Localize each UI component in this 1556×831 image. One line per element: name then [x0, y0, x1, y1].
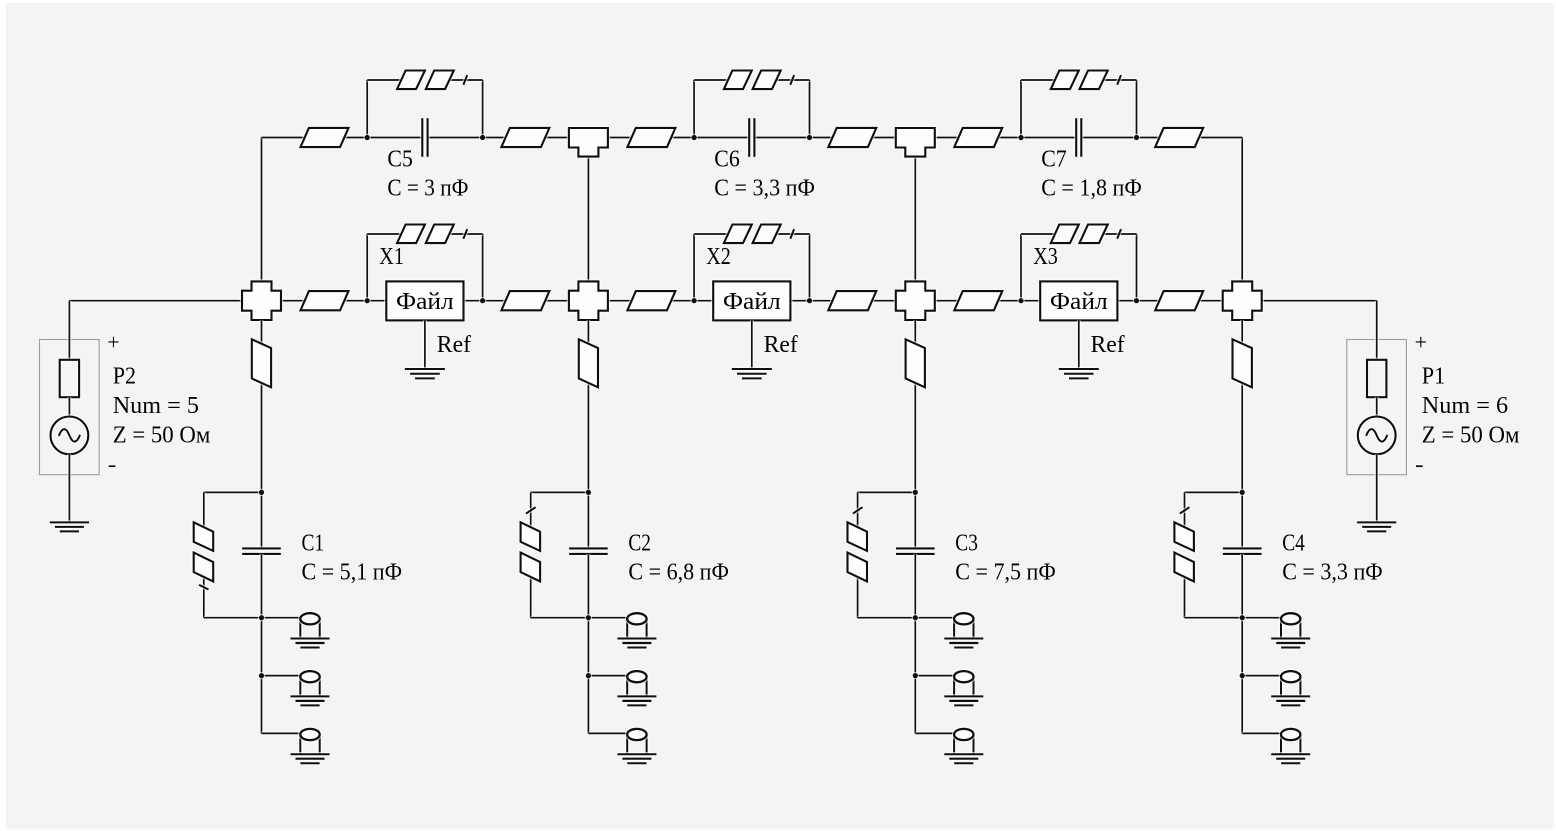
wire X3 to node n6	[1117, 299, 1136, 303]
svg-text:C3: C3	[955, 530, 978, 557]
svg-text:C = 3,3 пФ: C = 3,3 пФ	[714, 175, 815, 202]
coupled microstrip line bridge over X2	[724, 225, 794, 244]
junction node n4	[806, 297, 813, 304]
wire of stub 4 upper	[1240, 320, 1244, 492]
wire C5 to node t2	[428, 136, 483, 140]
microstrip line top row 6	[1155, 128, 1203, 147]
wire of stub 2 vertical 3	[586, 676, 590, 734]
wire node n6 to cross 4	[1137, 299, 1223, 303]
wire of stub 4 branch top	[1185, 490, 1243, 494]
junction of stub 1 top node	[258, 489, 265, 496]
microstrip line mid row 2	[501, 291, 549, 310]
microstrip line stub 3	[906, 339, 925, 387]
wire of coupled bridge X1 left top	[367, 232, 401, 236]
wire P2 top lead	[67, 301, 71, 360]
coupled microstrip line stub 2	[521, 507, 541, 581]
wire of coupled bridge 3 left top	[1021, 78, 1055, 82]
junction of stub 4 via node 1	[1239, 614, 1246, 621]
S-parameter file block X3	[1040, 281, 1117, 320]
capacitor C6	[749, 118, 754, 157]
wire of stub 1 branch lower lead	[202, 572, 206, 618]
minus terminal of P1	[1416, 464, 1423, 468]
svg-text:C5: C5	[387, 146, 413, 173]
svg-text:X1: X1	[379, 243, 404, 270]
wire of stub 2 via lead 1	[588, 616, 627, 620]
wire P2 middle lead	[67, 397, 71, 416]
wire of stub 2 branch bottom	[531, 616, 589, 620]
junction node n1	[364, 297, 371, 304]
microstrip cross junction 1	[242, 281, 281, 320]
wire node t3 to C6	[694, 136, 749, 140]
svg-text:Ref: Ref	[1091, 331, 1126, 358]
wire C6 to node t4	[754, 136, 809, 140]
resistor of port P1	[1367, 360, 1386, 397]
wire of coupled bridge 1 left top	[367, 78, 401, 82]
coupled microstrip line bridge 2	[724, 71, 794, 90]
junction node t3	[690, 134, 697, 141]
wire of coupled bridge X1 right top	[449, 232, 483, 236]
wire of stub 4 via lead 2	[1242, 674, 1281, 678]
svg-text:C2: C2	[628, 530, 651, 557]
svg-text:Z = 50 Ом: Z = 50 Ом	[113, 421, 211, 448]
wire of stub 1 vertical 2	[260, 618, 264, 676]
wire of stub 3 branch lower lead	[856, 572, 860, 618]
wire of stub 4 cap bottom lead	[1240, 554, 1244, 618]
ground ref ground of X3	[1059, 369, 1099, 378]
svg-text:C = 3,3 пФ: C = 3,3 пФ	[1282, 559, 1383, 586]
via hole 3 of stub 2	[617, 729, 656, 763]
microstrip line stub 4	[1233, 339, 1252, 387]
wire of stub 1 via lead 2	[262, 674, 301, 678]
junction of stub 4 top node	[1239, 489, 1246, 496]
wire tee 2 to node t5	[935, 136, 1021, 140]
wire of stub 1 branch bottom	[204, 616, 262, 620]
svg-text:Файл: Файл	[1050, 288, 1108, 315]
wire of stub 2 upper	[586, 320, 590, 492]
ac source of port P1	[1358, 417, 1396, 455]
wire of stub 1 upper	[260, 320, 264, 492]
svg-text:C1: C1	[302, 530, 325, 557]
wire of coupled bridge 3 right top	[1103, 78, 1137, 82]
wire of stub 2 branch upper lead	[529, 492, 533, 533]
wire node n3 to X2	[694, 299, 713, 303]
wire cross 1 up to top row	[260, 138, 264, 282]
svg-text:+: +	[1415, 330, 1427, 355]
wire of stub 2 branch lower lead	[529, 572, 533, 618]
wire of stub 4 branch bottom	[1185, 616, 1243, 620]
junction of stub 1 via node 1	[258, 614, 265, 621]
capacitor C5	[422, 118, 427, 157]
via hole 3 of stub 4	[1271, 729, 1310, 763]
wire of coupled bridge 1 right riser	[481, 80, 485, 138]
wire of coupled bridge 1 left riser	[365, 80, 369, 138]
junction of stub 2 top node	[585, 489, 592, 496]
junction of stub 3 top node	[912, 489, 919, 496]
wire of stub 1 branch top	[204, 490, 262, 494]
ground of port P2	[50, 522, 89, 531]
microstrip line top row 3	[627, 128, 675, 147]
junction node n5	[1017, 297, 1024, 304]
power port P1 outline box	[1347, 340, 1407, 475]
wire of stub 1 cap top lead	[260, 492, 264, 548]
capacitor C4	[1223, 548, 1262, 554]
svg-text:X3: X3	[1033, 243, 1058, 270]
coupled microstrip line stub 4	[1174, 507, 1194, 581]
resistor of port P2	[60, 360, 79, 397]
junction of stub 3 via node 2	[912, 672, 919, 679]
coupled microstrip line bridge over X3	[1051, 225, 1121, 244]
wire node n1 to X1	[367, 299, 386, 303]
junction of stub 2 via node 1	[585, 614, 592, 621]
microstrip line mid row 5	[954, 291, 1002, 310]
ground of port P1	[1357, 522, 1396, 531]
via hole 2 of stub 3	[944, 671, 983, 705]
wire of stub 4 vertical 2	[1240, 618, 1244, 676]
coupled microstrip line bridge 1	[397, 71, 467, 90]
svg-text:Файл: Файл	[723, 288, 781, 315]
microstrip line top row 2	[501, 128, 549, 147]
wire of stub 4 vertical 3	[1240, 676, 1244, 734]
microstrip line top row 5	[954, 128, 1002, 147]
wire of stub 2 vertical 2	[586, 618, 590, 676]
wire of stub 4 via lead 3	[1242, 731, 1281, 735]
wire of stub 3 via lead 2	[915, 674, 954, 678]
wire port P2 to cross 1	[69, 299, 242, 303]
wire of stub 4 via lead 1	[1242, 616, 1281, 620]
svg-text:Ref: Ref	[437, 331, 472, 358]
wire node t2 to tee 1	[483, 136, 569, 140]
wire cross 1 to node n1	[281, 299, 367, 303]
via hole 1 of stub 3	[944, 613, 983, 647]
ground ref ground of X2	[732, 369, 772, 378]
capacitor C2	[569, 548, 608, 554]
wire of coupled bridge X1 left riser	[365, 234, 369, 301]
minus terminal of P2	[109, 464, 116, 468]
wire node n5 to X3	[1021, 299, 1040, 303]
svg-text:P1: P1	[1422, 362, 1445, 389]
wire of stub 4 branch lower lead	[1183, 572, 1187, 618]
microstrip line mid row 1	[301, 291, 349, 310]
wire of coupled bridge X2 right top	[776, 232, 810, 236]
wire tee 1 down to cross 2	[586, 157, 590, 282]
svg-text:C4: C4	[1282, 530, 1305, 557]
wire of stub 1 vertical 3	[260, 676, 264, 734]
wire C7 to node t6	[1081, 136, 1136, 140]
microstrip line top row 4	[828, 128, 876, 147]
svg-text:Num = 5: Num = 5	[113, 392, 199, 419]
wire of coupled bridge 2 right top	[776, 78, 810, 82]
wire X3 ref pin	[1077, 320, 1081, 369]
wire of stub 3 branch top	[858, 490, 916, 494]
wire node n2 to cross 2	[483, 299, 569, 303]
wire X1 to node n2	[464, 299, 483, 303]
wire of stub 4 branch upper lead	[1183, 492, 1187, 533]
svg-text:Z = 50 Ом: Z = 50 Ом	[1422, 421, 1520, 448]
wire node t6 to top corner right	[1137, 136, 1243, 140]
wire of stub 2 via lead 2	[588, 674, 627, 678]
microstrip line mid row 6	[1155, 291, 1203, 310]
capacitor C1	[242, 548, 281, 554]
wire of coupled bridge X3 right top	[1103, 232, 1137, 236]
wire of coupled bridge 3 left riser	[1019, 80, 1023, 138]
svg-text:Ref: Ref	[764, 331, 799, 358]
microstrip line stub 2	[579, 339, 598, 387]
wire cross 4 to port P1	[1262, 299, 1377, 303]
wire of coupled bridge X2 left top	[694, 232, 728, 236]
svg-text:C7: C7	[1041, 146, 1067, 173]
via hole 2 of stub 2	[617, 671, 656, 705]
wire P2 bottom lead	[67, 454, 71, 522]
wire of stub 4 cap top lead	[1240, 492, 1244, 548]
wire node t4 to tee 2	[810, 136, 896, 140]
junction node t4	[806, 134, 813, 141]
wire cross 3 to node n5	[935, 299, 1021, 303]
wire top corner to node t1	[262, 136, 368, 140]
wire of coupled bridge X1 right riser	[481, 234, 485, 301]
wire of coupled bridge 2 right riser	[808, 80, 812, 138]
wire tee 1 to node t3	[608, 136, 694, 140]
wire of coupled bridge X2 left riser	[692, 234, 696, 301]
microstrip tee junction 2	[896, 128, 935, 157]
svg-text:C = 6,8 пФ: C = 6,8 пФ	[628, 559, 729, 586]
wire of stub 3 upper	[913, 320, 917, 492]
junction node t1	[364, 134, 371, 141]
ac source of port P2	[51, 417, 89, 455]
wire X1 ref pin	[423, 320, 427, 369]
wire node t5 to C7	[1021, 136, 1076, 140]
via hole 2 of stub 1	[291, 671, 330, 705]
wire of stub 3 vertical 3	[913, 676, 917, 734]
microstrip tee junction 1	[569, 128, 608, 157]
wire of coupled bridge X2 right riser	[808, 234, 812, 301]
via hole 1 of stub 2	[617, 613, 656, 647]
wire of stub 3 via lead 1	[915, 616, 954, 620]
wire of coupled bridge 3 right riser	[1135, 80, 1139, 138]
coupled microstrip line stub 1	[194, 522, 214, 589]
svg-text:P2: P2	[113, 362, 136, 389]
wire of coupled bridge X3 left top	[1021, 232, 1055, 236]
ground ref ground of X1	[405, 369, 445, 378]
wire node t1 to C5	[367, 136, 422, 140]
junction node t5	[1017, 134, 1024, 141]
junction node t6	[1133, 134, 1140, 141]
wire node n4 to cross 3	[810, 299, 896, 303]
microstrip cross junction 3	[896, 281, 935, 320]
via hole 2 of stub 4	[1271, 671, 1310, 705]
wire tee 2 down to cross 3	[913, 157, 917, 282]
wire of stub 3 branch bottom	[858, 616, 916, 620]
wire X2 to node n4	[790, 299, 809, 303]
junction node n6	[1133, 297, 1140, 304]
wire of stub 3 branch upper lead	[856, 492, 860, 533]
wire of coupled bridge X3 left riser	[1019, 234, 1023, 301]
wire of stub 3 cap bottom lead	[913, 554, 917, 618]
via hole 3 of stub 3	[944, 729, 983, 763]
coupled microstrip line bridge over X1	[397, 225, 467, 244]
via hole 3 of stub 1	[291, 729, 330, 763]
wire cross 4 up to top row	[1240, 138, 1244, 282]
microstrip line top row 1	[301, 128, 349, 147]
junction of stub 1 via node 2	[258, 672, 265, 679]
microstrip line stub 1	[252, 339, 271, 387]
capacitor C3	[896, 548, 935, 554]
wire P1 top lead	[1375, 301, 1379, 360]
wire of stub 1 cap bottom lead	[260, 554, 264, 618]
svg-text:C6: C6	[714, 146, 740, 173]
wire of stub 2 via lead 3	[588, 731, 627, 735]
via hole 1 of stub 1	[291, 613, 330, 647]
wire of stub 1 branch upper lead	[202, 492, 206, 533]
wire of coupled bridge 2 left riser	[692, 80, 696, 138]
wire of coupled bridge 1 right top	[449, 78, 483, 82]
svg-text:+: +	[107, 330, 119, 355]
wire P1 bottom lead	[1375, 454, 1379, 522]
junction of stub 4 via node 2	[1239, 672, 1246, 679]
junction of stub 3 via node 1	[912, 614, 919, 621]
via hole 1 of stub 4	[1271, 613, 1310, 647]
coupled microstrip line stub 3	[848, 507, 868, 581]
wire of stub 1 via lead 3	[262, 731, 301, 735]
svg-text:X2: X2	[706, 243, 731, 270]
junction node n2	[479, 297, 486, 304]
svg-text:C = 7,5 пФ: C = 7,5 пФ	[955, 559, 1056, 586]
wire of stub 3 via lead 3	[915, 731, 954, 735]
svg-text:C = 3 пФ: C = 3 пФ	[387, 175, 468, 202]
microstrip line mid row 4	[828, 291, 876, 310]
wire X2 ref pin	[750, 320, 754, 369]
wire of coupled bridge X3 right riser	[1135, 234, 1139, 301]
wire of stub 2 branch top	[531, 490, 589, 494]
microstrip cross junction 4	[1223, 281, 1262, 320]
coupled microstrip line bridge 3	[1051, 71, 1121, 90]
wire of stub 3 vertical 2	[913, 618, 917, 676]
microstrip line mid row 3	[627, 291, 675, 310]
wire of stub 2 cap bottom lead	[586, 554, 590, 618]
svg-text:C = 5,1 пФ: C = 5,1 пФ	[302, 559, 403, 586]
S-parameter file block X1	[386, 281, 463, 320]
wire P1 middle lead	[1375, 397, 1379, 416]
svg-text:C = 1,8 пФ: C = 1,8 пФ	[1041, 175, 1142, 202]
junction node n3	[690, 297, 697, 304]
wire cross 2 to node n3	[608, 299, 694, 303]
svg-text:Num = 6: Num = 6	[1422, 392, 1508, 419]
capacitor C7	[1076, 118, 1081, 157]
wire of stub 1 via lead 1	[262, 616, 301, 620]
junction node t2	[479, 134, 486, 141]
svg-text:Файл: Файл	[396, 288, 454, 315]
wire of stub 3 cap top lead	[913, 492, 917, 548]
microstrip cross junction 2	[569, 281, 608, 320]
wire of coupled bridge 2 left top	[694, 78, 728, 82]
power port P2 outline box	[40, 340, 100, 475]
junction of stub 2 via node 2	[585, 672, 592, 679]
wire of stub 2 cap top lead	[586, 492, 590, 548]
S-parameter file block X2	[713, 281, 790, 320]
